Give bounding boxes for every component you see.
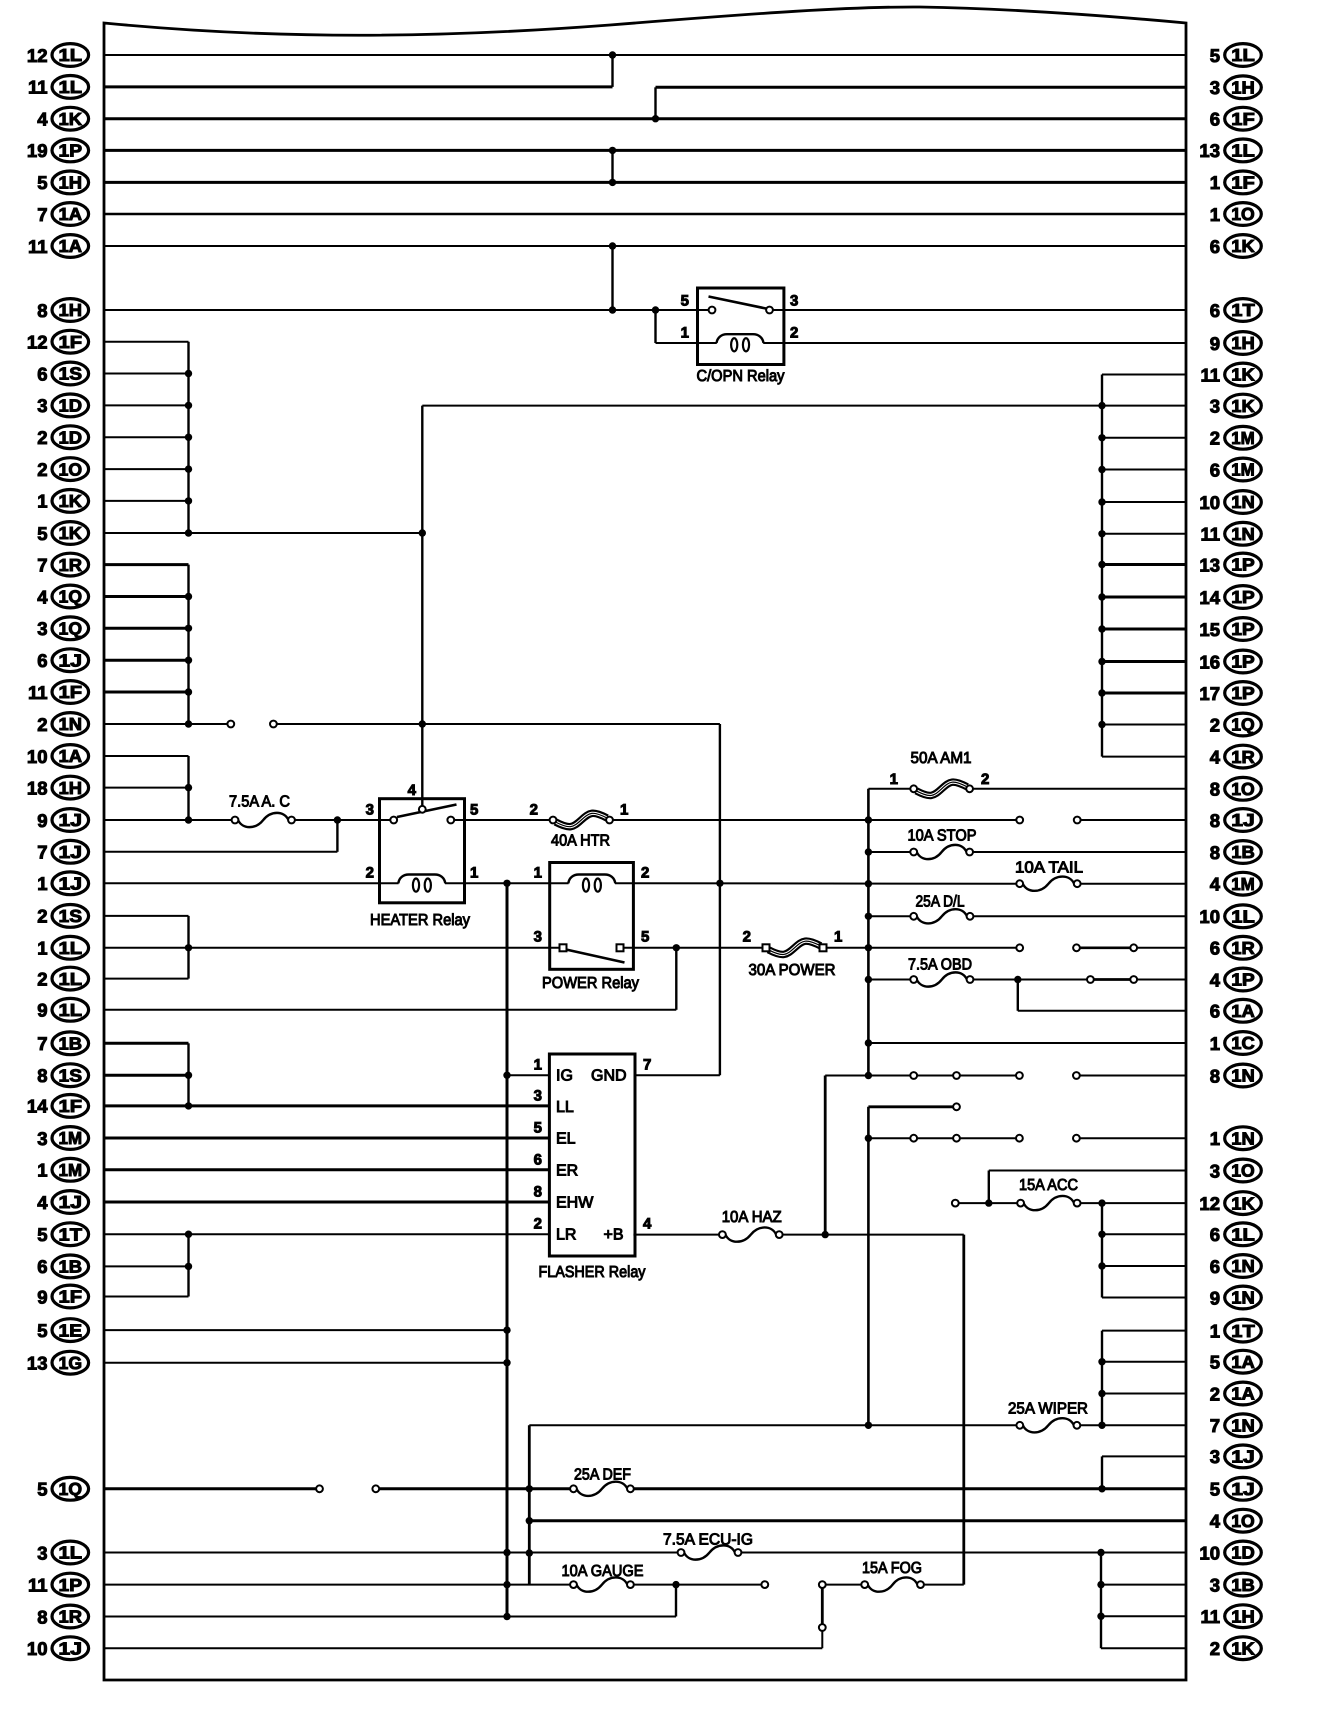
svg-text:1M: 1M xyxy=(1231,874,1255,894)
svg-text:2: 2 xyxy=(1210,1638,1220,1659)
svg-text:15: 15 xyxy=(1199,619,1220,640)
svg-text:1J: 1J xyxy=(59,1192,83,1212)
svg-text:3: 3 xyxy=(1210,77,1220,98)
svg-text:1N: 1N xyxy=(1231,1416,1255,1436)
svg-text:7: 7 xyxy=(37,204,47,225)
svg-text:LR: LR xyxy=(556,1227,576,1244)
svg-text:40A HTR: 40A HTR xyxy=(551,833,610,850)
svg-text:10: 10 xyxy=(1199,906,1220,927)
svg-text:13: 13 xyxy=(1199,140,1220,161)
svg-text:6: 6 xyxy=(534,1152,542,1169)
svg-text:1P: 1P xyxy=(1231,555,1255,575)
svg-text:7.5A ECU-IG: 7.5A ECU-IG xyxy=(663,1532,753,1549)
svg-text:1P: 1P xyxy=(59,1575,83,1595)
svg-text:1T: 1T xyxy=(59,1224,83,1244)
svg-text:4: 4 xyxy=(1210,1511,1221,1532)
svg-text:3: 3 xyxy=(1210,1160,1220,1181)
svg-text:5: 5 xyxy=(1210,45,1220,66)
svg-text:25A WIPER: 25A WIPER xyxy=(1008,1401,1088,1418)
svg-text:1R: 1R xyxy=(1231,747,1255,767)
svg-text:13: 13 xyxy=(27,1353,48,1374)
svg-text:10: 10 xyxy=(27,746,48,767)
svg-text:5: 5 xyxy=(641,929,649,946)
svg-text:5: 5 xyxy=(37,1320,47,1341)
svg-text:9: 9 xyxy=(1210,1287,1220,1308)
svg-text:7.5A OBD: 7.5A OBD xyxy=(908,957,972,974)
svg-text:1F: 1F xyxy=(59,1287,83,1307)
svg-text:5: 5 xyxy=(1210,1479,1220,1500)
svg-text:5: 5 xyxy=(470,802,478,819)
svg-text:8: 8 xyxy=(1210,842,1220,863)
svg-text:6: 6 xyxy=(1210,1001,1220,1022)
svg-text:GND: GND xyxy=(591,1068,627,1085)
svg-text:+B: +B xyxy=(604,1227,624,1244)
svg-text:1C: 1C xyxy=(1231,1033,1255,1053)
svg-text:19: 19 xyxy=(27,140,48,161)
svg-text:1: 1 xyxy=(1210,1320,1220,1341)
svg-text:15A FOG: 15A FOG xyxy=(862,1560,922,1577)
svg-text:1M: 1M xyxy=(1231,428,1255,448)
svg-text:1O: 1O xyxy=(1231,779,1255,799)
svg-text:1P: 1P xyxy=(1231,587,1255,607)
svg-text:6: 6 xyxy=(1210,1256,1220,1277)
svg-text:1: 1 xyxy=(37,491,47,512)
svg-text:25A DEF: 25A DEF xyxy=(574,1467,631,1484)
svg-text:5: 5 xyxy=(37,172,47,193)
svg-text:1J: 1J xyxy=(59,810,83,830)
svg-text:1: 1 xyxy=(1210,172,1220,193)
svg-text:1K: 1K xyxy=(59,109,83,129)
svg-text:1N: 1N xyxy=(1231,1288,1255,1308)
svg-text:12: 12 xyxy=(27,45,48,66)
svg-text:1K: 1K xyxy=(59,523,83,543)
svg-text:50A AM1: 50A AM1 xyxy=(911,750,972,767)
svg-text:1J: 1J xyxy=(1231,1479,1255,1499)
svg-text:6: 6 xyxy=(1210,236,1220,257)
svg-text:1K: 1K xyxy=(1231,1638,1255,1658)
svg-text:1J: 1J xyxy=(59,650,83,670)
svg-text:11: 11 xyxy=(28,236,48,257)
svg-text:1T: 1T xyxy=(1231,300,1255,320)
svg-text:12: 12 xyxy=(1199,1193,1220,1214)
svg-text:2: 2 xyxy=(37,459,47,480)
svg-text:10: 10 xyxy=(1199,492,1220,513)
svg-text:3: 3 xyxy=(37,1128,47,1149)
svg-text:4: 4 xyxy=(1210,874,1221,895)
svg-text:1O: 1O xyxy=(1231,204,1255,224)
svg-text:14: 14 xyxy=(1199,587,1220,608)
svg-text:1Q: 1Q xyxy=(59,587,83,607)
svg-text:1: 1 xyxy=(534,1057,542,1074)
svg-text:2: 2 xyxy=(37,427,47,448)
svg-text:4: 4 xyxy=(643,1216,652,1233)
svg-text:1N: 1N xyxy=(1231,1066,1255,1086)
svg-text:8: 8 xyxy=(1210,1065,1220,1086)
svg-text:1R: 1R xyxy=(59,555,83,575)
svg-text:1N: 1N xyxy=(1231,1128,1255,1148)
svg-text:6: 6 xyxy=(37,363,47,384)
svg-text:1J: 1J xyxy=(1231,1447,1255,1467)
svg-text:3: 3 xyxy=(1210,1446,1220,1467)
svg-text:1Q: 1Q xyxy=(1231,715,1255,735)
svg-text:1H: 1H xyxy=(1231,78,1255,98)
svg-text:1: 1 xyxy=(620,802,628,819)
svg-text:1F: 1F xyxy=(59,1096,83,1116)
svg-text:2: 2 xyxy=(37,906,47,927)
svg-text:1G: 1G xyxy=(59,1353,83,1373)
svg-text:3: 3 xyxy=(37,1542,47,1563)
svg-text:1P: 1P xyxy=(1231,683,1255,703)
svg-text:7: 7 xyxy=(37,1033,47,1054)
svg-text:2: 2 xyxy=(37,714,47,735)
svg-text:11: 11 xyxy=(1200,524,1220,545)
svg-text:1: 1 xyxy=(534,865,542,882)
svg-text:1F: 1F xyxy=(59,682,83,702)
svg-text:2: 2 xyxy=(1210,428,1220,449)
svg-text:1J: 1J xyxy=(59,874,83,894)
svg-text:1O: 1O xyxy=(59,459,83,479)
svg-text:3: 3 xyxy=(1210,1574,1220,1595)
svg-text:9: 9 xyxy=(37,810,47,831)
svg-text:1P: 1P xyxy=(1231,652,1255,672)
svg-text:4: 4 xyxy=(37,586,48,607)
svg-text:4: 4 xyxy=(408,782,417,799)
svg-text:1H: 1H xyxy=(59,778,83,798)
svg-text:1D: 1D xyxy=(1231,1543,1255,1563)
svg-text:8: 8 xyxy=(37,300,47,321)
svg-text:5: 5 xyxy=(534,1120,542,1137)
svg-text:1M: 1M xyxy=(59,1128,83,1148)
svg-text:5: 5 xyxy=(37,523,47,544)
svg-text:7: 7 xyxy=(37,842,47,863)
svg-text:6: 6 xyxy=(1210,300,1220,321)
svg-text:1A: 1A xyxy=(1231,1352,1255,1372)
svg-text:1J: 1J xyxy=(59,842,83,862)
svg-text:10A HAZ: 10A HAZ xyxy=(722,1209,782,1226)
svg-text:1L: 1L xyxy=(1231,907,1255,927)
svg-text:1N: 1N xyxy=(1231,524,1255,544)
svg-text:1: 1 xyxy=(834,929,842,946)
svg-text:16: 16 xyxy=(1199,651,1220,672)
svg-text:1L: 1L xyxy=(1231,1225,1255,1245)
svg-text:1L: 1L xyxy=(59,1543,83,1563)
svg-text:7: 7 xyxy=(1210,1415,1220,1436)
svg-text:4: 4 xyxy=(37,1192,48,1213)
svg-text:1A: 1A xyxy=(1231,1384,1255,1404)
svg-text:5: 5 xyxy=(37,1224,47,1245)
svg-text:1K: 1K xyxy=(1231,1193,1255,1213)
svg-text:30A POWER: 30A POWER xyxy=(749,962,836,979)
svg-text:8: 8 xyxy=(37,1065,47,1086)
svg-text:1H: 1H xyxy=(59,173,83,193)
svg-text:10A GAUGE: 10A GAUGE xyxy=(562,1563,644,1580)
svg-text:3: 3 xyxy=(534,1088,542,1105)
svg-text:FLASHER Relay: FLASHER Relay xyxy=(539,1264,646,1281)
svg-text:1B: 1B xyxy=(59,1257,83,1277)
svg-text:ER: ER xyxy=(556,1162,578,1179)
svg-text:1: 1 xyxy=(1210,1128,1220,1149)
svg-text:2: 2 xyxy=(1210,1383,1220,1404)
svg-text:1K: 1K xyxy=(1231,396,1255,416)
svg-text:1L: 1L xyxy=(59,1000,83,1020)
svg-text:10A STOP: 10A STOP xyxy=(908,828,977,845)
svg-text:C/OPN Relay: C/OPN Relay xyxy=(697,368,785,385)
svg-text:11: 11 xyxy=(1200,1606,1220,1627)
svg-text:7: 7 xyxy=(37,554,47,575)
svg-text:1D: 1D xyxy=(59,427,83,447)
svg-text:1L: 1L xyxy=(59,969,83,989)
svg-text:1F: 1F xyxy=(59,332,83,352)
svg-text:1J: 1J xyxy=(59,1638,83,1658)
svg-text:1Q: 1Q xyxy=(59,1479,83,1499)
svg-text:11: 11 xyxy=(28,682,48,703)
svg-text:25A D/L: 25A D/L xyxy=(916,894,965,911)
svg-text:3: 3 xyxy=(366,802,374,819)
svg-text:5: 5 xyxy=(1210,1352,1220,1373)
svg-text:1Q: 1Q xyxy=(59,619,83,639)
svg-text:1M: 1M xyxy=(59,1160,83,1180)
svg-text:6: 6 xyxy=(37,650,47,671)
svg-text:LL: LL xyxy=(556,1099,574,1116)
svg-text:8: 8 xyxy=(534,1184,542,1201)
svg-text:11: 11 xyxy=(28,1574,48,1595)
svg-text:6: 6 xyxy=(1210,459,1220,480)
svg-text:1: 1 xyxy=(1210,204,1220,225)
svg-text:6: 6 xyxy=(1210,109,1220,130)
svg-text:2: 2 xyxy=(981,771,989,788)
svg-text:1P: 1P xyxy=(1231,619,1255,639)
svg-text:7: 7 xyxy=(643,1057,651,1074)
svg-text:2: 2 xyxy=(743,929,751,946)
svg-text:1M: 1M xyxy=(1231,460,1255,480)
svg-text:1: 1 xyxy=(470,865,478,882)
svg-text:8: 8 xyxy=(1210,810,1220,831)
svg-text:6: 6 xyxy=(1210,1224,1220,1245)
svg-text:10: 10 xyxy=(1199,1542,1220,1563)
svg-text:3: 3 xyxy=(37,618,47,639)
svg-text:3: 3 xyxy=(790,293,798,310)
svg-text:10A TAIL: 10A TAIL xyxy=(1015,860,1083,877)
svg-text:1D: 1D xyxy=(59,396,83,416)
svg-text:6: 6 xyxy=(1210,938,1220,959)
svg-text:5: 5 xyxy=(681,293,689,310)
svg-text:1L: 1L xyxy=(1231,45,1255,65)
svg-text:EHW: EHW xyxy=(556,1195,594,1212)
svg-text:1R: 1R xyxy=(1231,938,1255,958)
svg-text:3: 3 xyxy=(534,929,542,946)
svg-text:15A ACC: 15A ACC xyxy=(1019,1177,1078,1194)
svg-text:1: 1 xyxy=(1210,1033,1220,1054)
svg-text:11: 11 xyxy=(28,77,48,98)
svg-text:1P: 1P xyxy=(1231,970,1255,990)
svg-text:1A: 1A xyxy=(1231,1001,1255,1021)
svg-text:4: 4 xyxy=(1210,746,1221,767)
svg-text:1K: 1K xyxy=(59,491,83,511)
svg-text:1A: 1A xyxy=(59,746,83,766)
svg-text:1A: 1A xyxy=(59,236,83,256)
svg-text:1F: 1F xyxy=(1231,173,1255,193)
svg-text:2: 2 xyxy=(37,968,47,989)
svg-text:1P: 1P xyxy=(59,141,83,161)
svg-text:1F: 1F xyxy=(1231,109,1255,129)
svg-text:4: 4 xyxy=(37,109,48,130)
svg-text:17: 17 xyxy=(1199,683,1220,704)
svg-text:8: 8 xyxy=(1210,779,1220,800)
svg-text:9: 9 xyxy=(1210,333,1220,354)
svg-text:10: 10 xyxy=(27,1638,48,1659)
svg-text:1B: 1B xyxy=(1231,1575,1255,1595)
svg-text:8: 8 xyxy=(37,1606,47,1627)
svg-text:18: 18 xyxy=(27,777,48,798)
svg-text:1L: 1L xyxy=(59,77,83,97)
svg-text:1N: 1N xyxy=(1231,492,1255,512)
svg-text:1E: 1E xyxy=(59,1320,83,1340)
svg-text:2: 2 xyxy=(366,865,374,882)
svg-text:9: 9 xyxy=(37,1286,47,1307)
svg-text:1L: 1L xyxy=(59,45,83,65)
svg-text:13: 13 xyxy=(1199,554,1220,575)
svg-text:2: 2 xyxy=(641,865,649,882)
svg-text:1O: 1O xyxy=(1231,1161,1255,1181)
svg-text:1S: 1S xyxy=(59,364,83,384)
svg-text:1H: 1H xyxy=(1231,333,1255,353)
svg-text:3: 3 xyxy=(37,395,47,416)
svg-text:1R: 1R xyxy=(59,1607,83,1627)
svg-text:1: 1 xyxy=(890,771,898,788)
svg-text:1H: 1H xyxy=(59,300,83,320)
svg-text:1J: 1J xyxy=(1231,810,1255,830)
svg-text:IG: IG xyxy=(556,1068,573,1085)
svg-text:1B: 1B xyxy=(59,1034,83,1054)
svg-text:2: 2 xyxy=(530,802,538,819)
svg-text:EL: EL xyxy=(556,1131,576,1148)
svg-text:1K: 1K xyxy=(1231,365,1255,385)
svg-text:6: 6 xyxy=(37,1256,47,1277)
svg-text:9: 9 xyxy=(37,1000,47,1021)
svg-text:1L: 1L xyxy=(1231,141,1255,161)
svg-text:14: 14 xyxy=(27,1096,48,1117)
svg-text:POWER Relay: POWER Relay xyxy=(542,975,639,992)
svg-text:1T: 1T xyxy=(1231,1321,1255,1341)
svg-text:1S: 1S xyxy=(59,1065,83,1085)
svg-text:1: 1 xyxy=(37,1160,47,1181)
svg-text:1: 1 xyxy=(681,325,689,342)
svg-text:1A: 1A xyxy=(59,204,83,224)
svg-text:1O: 1O xyxy=(1231,1511,1255,1531)
svg-text:1B: 1B xyxy=(1231,842,1255,862)
svg-text:4: 4 xyxy=(1210,969,1221,990)
svg-text:1K: 1K xyxy=(1231,236,1255,256)
svg-text:1N: 1N xyxy=(1231,1256,1255,1276)
svg-text:1S: 1S xyxy=(59,906,83,926)
svg-text:1: 1 xyxy=(37,873,47,894)
svg-text:1N: 1N xyxy=(59,714,83,734)
svg-text:2: 2 xyxy=(790,325,798,342)
svg-text:12: 12 xyxy=(27,332,48,353)
svg-text:11: 11 xyxy=(1200,364,1220,385)
svg-text:1: 1 xyxy=(37,938,47,959)
svg-text:1H: 1H xyxy=(1231,1606,1255,1626)
svg-text:7.5A A. C: 7.5A A. C xyxy=(229,794,290,811)
svg-text:1L: 1L xyxy=(59,938,83,958)
svg-text:2: 2 xyxy=(1210,714,1220,735)
svg-text:5: 5 xyxy=(37,1479,47,1500)
svg-text:HEATER Relay: HEATER Relay xyxy=(370,912,470,929)
svg-text:3: 3 xyxy=(1210,395,1220,416)
svg-text:2: 2 xyxy=(534,1216,542,1233)
